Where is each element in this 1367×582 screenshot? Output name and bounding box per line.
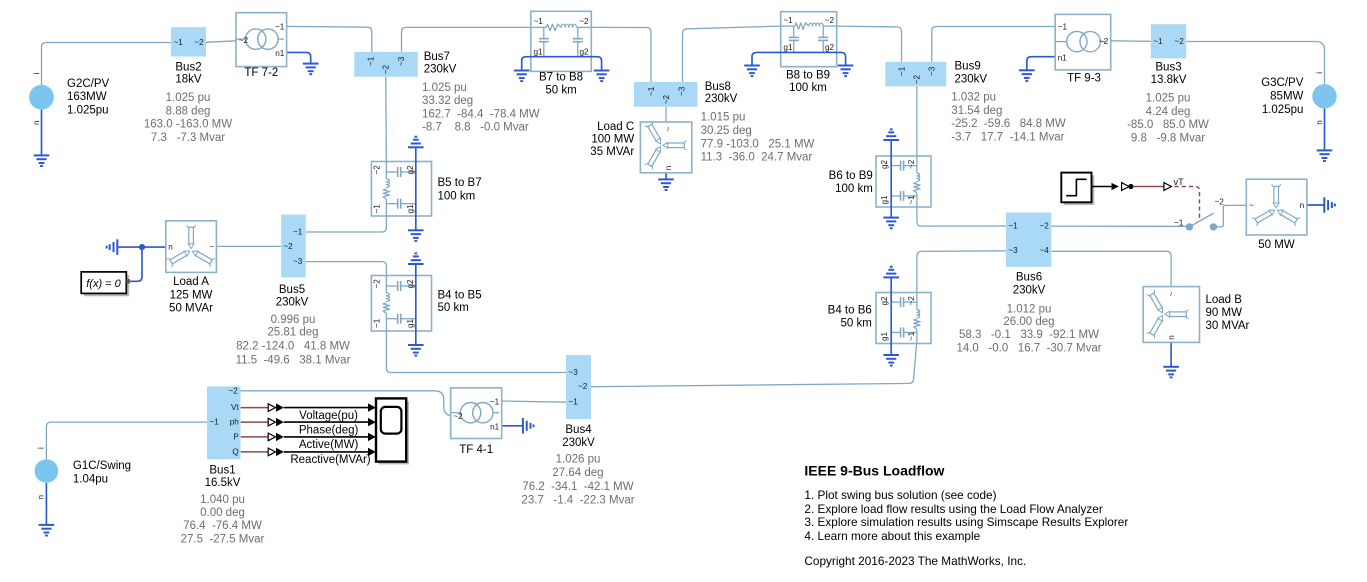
wire Load B n to ground: [1170, 342, 1172, 366]
svg-text:~2: ~2: [578, 382, 588, 391]
wire Bus9 port ~2 to line B6 to B9 port ~2: [916, 86, 918, 156]
svg-text:Voltage(pu): Voltage(pu): [299, 410, 358, 422]
list item 1: [804, 488, 996, 502]
label Load C: [590, 121, 634, 158]
flipped ground above line B4 to B5: [408, 253, 424, 264]
ground right of line B8 to B9: [838, 66, 854, 77]
svg-text:230kV: 230kV: [955, 74, 988, 86]
wire TF 7-2 port ~1 to Bus7 port ~1: [287, 26, 372, 52]
transmission line B5 to B7: [371, 162, 431, 217]
transformer TF 7-2: [236, 13, 287, 67]
svg-text:~2: ~2: [1039, 222, 1049, 231]
bus Bus3: [1151, 24, 1186, 58]
signal wires to Scope: [268, 403, 376, 456]
svg-text:g1: g1: [880, 195, 889, 205]
svg-text:~2: ~2: [239, 36, 249, 45]
wire Bus8 port ~3 to line B8 to B9 port ~1: [683, 26, 781, 82]
svg-text:B8 to B9: B8 to B9: [786, 69, 830, 81]
svg-text:Q: Q: [232, 447, 238, 456]
svg-text:50 km: 50 km: [545, 85, 576, 97]
svg-text:~1: ~1: [373, 318, 382, 328]
svg-text:~1: ~1: [1058, 22, 1068, 31]
svg-text:TF 7-2: TF 7-2: [244, 67, 278, 79]
svg-text:11.3 -36.0 24.7 Mvar: 11.3 -36.0 24.7 Mvar: [701, 152, 813, 164]
wire line B4 to B6 port ~2 to Bus6 port ~3: [917, 251, 1006, 293]
values Bus3: [1127, 93, 1209, 145]
wire switch port ~2 to load 50 MW: [1216, 205, 1246, 227]
transformer TF 4-1: [451, 388, 502, 439]
bus Bus9: [885, 62, 946, 87]
svg-text:~1: ~1: [210, 418, 220, 427]
svg-text:1.012 pu: 1.012 pu: [1007, 304, 1052, 316]
svg-text:n: n: [1315, 120, 1324, 125]
values Bus5: [236, 314, 351, 366]
wire TF 9-3 n1 to ground: [1027, 57, 1055, 71]
svg-text:Bus8: Bus8: [705, 81, 731, 93]
svg-text:1.025pu: 1.025pu: [67, 105, 109, 117]
label G1C/Swing: [73, 460, 131, 486]
svg-text:Bus7: Bus7: [424, 51, 450, 63]
generator G3C/PV: [1312, 72, 1336, 125]
wire G2C/PV n to ground: [41, 110, 43, 156]
label Voltage(pu): [299, 410, 358, 422]
svg-text:1.025pu: 1.025pu: [1262, 104, 1304, 116]
physical signal wire to vT: [1133, 186, 1164, 188]
bus Bus5: [281, 215, 306, 278]
svg-text:~1: ~1: [373, 204, 382, 214]
label Reactive(MVAr): [290, 454, 370, 466]
label B6 to B9: [829, 170, 873, 195]
wire Bus3 port ~2 to G3C/PV: [1186, 42, 1324, 85]
svg-text:~2: ~2: [373, 279, 382, 289]
svg-text:i: i: [37, 447, 46, 449]
svg-text:11.5 -49.6 38.1 Mvar: 11.5 -49.6 38.1 Mvar: [236, 354, 351, 366]
svg-text:163.0 -163.0 MW: 163.0 -163.0 MW: [144, 119, 232, 131]
svg-text:~2: ~2: [1099, 37, 1109, 46]
svg-text:33.32 deg: 33.32 deg: [422, 95, 473, 107]
svg-text:~1: ~1: [275, 22, 285, 31]
values Bus2: [144, 92, 232, 144]
svg-text:50 km: 50 km: [840, 318, 871, 330]
svg-text:76.2 -34.1 -42.1 MW: 76.2 -34.1 -42.1 MW: [522, 481, 633, 493]
junction node at Load A ground net: [140, 245, 145, 250]
svg-text:B4 to B5: B4 to B5: [438, 290, 482, 302]
transmission line B6 to B9: [876, 156, 931, 207]
wire g net line B4 to B6: [890, 277, 892, 355]
svg-text:-3.7 17.7 -14.1 Mvar: -3.7 17.7 -14.1 Mvar: [951, 132, 1064, 144]
wire load 50 MW n to ground: [1307, 204, 1324, 206]
svg-text:13.8kV: 13.8kV: [1151, 74, 1187, 86]
label B4 to B6: [828, 304, 872, 329]
svg-text:~1: ~1: [367, 56, 376, 66]
label Bus5: [276, 284, 309, 308]
svg-text:~2: ~2: [283, 242, 293, 251]
values Bus6: [956, 304, 1101, 355]
svg-text:1. Plot swing bus solution (se: 1. Plot swing bus solution (see code): [804, 488, 996, 502]
svg-text:~3: ~3: [928, 66, 937, 76]
svg-text:25.81 deg: 25.81 deg: [267, 327, 318, 339]
svg-text:9.8 -9.8 Mvar: 9.8 -9.8 Mvar: [1131, 132, 1205, 144]
label vT: [1174, 177, 1185, 187]
svg-text:n1: n1: [275, 49, 285, 58]
svg-text:IEEE 9-Bus Loadflow: IEEE 9-Bus Loadflow: [804, 462, 944, 478]
svg-text:~2: ~2: [194, 38, 204, 47]
ground below line B4 to B5: [408, 345, 424, 356]
wire TF 4-1 n1 to ground: [502, 425, 523, 427]
wire Bus8 port ~2 to Load C: [665, 107, 667, 122]
svg-text:ph: ph: [230, 418, 240, 427]
svg-text:100 km: 100 km: [835, 183, 873, 195]
svg-text:27.64 deg: 27.64 deg: [552, 467, 603, 479]
label G3C/PV: [1261, 77, 1304, 116]
svg-text:230kV: 230kV: [276, 296, 309, 308]
svg-text:~2: ~2: [907, 296, 916, 306]
svg-text:B7 to B8: B7 to B8: [539, 71, 583, 83]
svg-text:27.5 -27.5 Mvar: 27.5 -27.5 Mvar: [181, 533, 265, 545]
label B8 to B9: [786, 69, 830, 94]
svg-text:g1: g1: [534, 48, 544, 57]
ground at TF 7-2: [303, 64, 319, 75]
transmission line B7 to B8: [531, 11, 592, 71]
svg-text:n: n: [664, 165, 673, 170]
ground at TF 9-3: [1019, 70, 1035, 81]
svg-text:Bus1: Bus1: [209, 464, 235, 476]
wire Bus1 port ~2 to TF 4-1 port ~2: [241, 391, 453, 416]
svg-text:g1: g1: [880, 331, 889, 341]
svg-text:76.4 -76.4 MW: 76.4 -76.4 MW: [183, 520, 262, 532]
svg-text:TF 9-3: TF 9-3: [1067, 72, 1101, 84]
svg-text:Copyright 2016-2023 The MathWo: Copyright 2016-2023 The MathWorks, Inc.: [804, 554, 1026, 568]
generator G2C/PV: [29, 73, 54, 126]
bus Bus2: [171, 27, 206, 56]
svg-text:~3: ~3: [569, 368, 579, 377]
svg-text:~2: ~2: [1215, 197, 1225, 206]
svg-text:~1: ~1: [1174, 219, 1184, 228]
values Bus8: [701, 112, 815, 164]
wire line B8 to B9 g1 g2 to grounds: [752, 52, 846, 65]
bus Bus8: [634, 82, 698, 107]
svg-text:B6 to B9: B6 to B9: [829, 170, 873, 182]
port label ~1 of switch: [1174, 219, 1184, 228]
converter triangle with node: [1122, 183, 1133, 191]
svg-text:g2: g2: [406, 279, 415, 289]
svg-text:Phase(deg): Phase(deg): [299, 425, 359, 437]
svg-text:Reactive(MVAr): Reactive(MVAr): [290, 454, 370, 466]
wire line B7 to B8 g1 g2 to grounds: [522, 57, 602, 71]
scope block: [376, 398, 409, 464]
svg-text:-8.7 8.8 -0.0 Mvar: -8.7 8.8 -0.0 Mvar: [422, 122, 529, 134]
wire Bus2 to TF 7-2: [206, 41, 236, 43]
svg-text:-85.0 85.0 MW: -85.0 85.0 MW: [1127, 119, 1209, 131]
flipped ground above line B6 to B9: [883, 129, 899, 140]
svg-text:~1: ~1: [907, 195, 916, 205]
svg-text:~2: ~2: [228, 387, 238, 396]
svg-text:0.00 deg: 0.00 deg: [200, 507, 245, 519]
wire line B4 to B5 port ~1 to Bus4 port ~3: [386, 331, 566, 373]
svg-text:~1: ~1: [647, 86, 656, 96]
svg-text:1.025 pu: 1.025 pu: [1146, 93, 1191, 105]
svg-text:Load A: Load A: [173, 276, 209, 288]
svg-text:~1: ~1: [174, 38, 184, 47]
svg-text:~2: ~2: [907, 159, 916, 169]
svg-text:TF 4-1: TF 4-1: [459, 444, 493, 456]
port label ~2 of switch: [1215, 197, 1225, 206]
svg-text:1.025 pu: 1.025 pu: [422, 82, 467, 94]
svg-text:Bus9: Bus9: [955, 61, 981, 73]
sideways ground at Load A: [107, 239, 118, 255]
svg-text:~: ~: [1167, 292, 1176, 297]
svg-text:82.2 -124.0 41.8 MW: 82.2 -124.0 41.8 MW: [236, 341, 350, 353]
svg-text:P: P: [233, 432, 239, 441]
label Phase(deg): [299, 425, 359, 437]
bus Bus1: [207, 386, 241, 459]
ground right of line B7 to B8: [594, 71, 610, 82]
svg-text:G2C/PV: G2C/PV: [67, 78, 110, 90]
svg-text:30.25 deg: 30.25 deg: [701, 125, 752, 137]
label Bus4: [562, 424, 595, 449]
wire Bus4 port ~2 to line B4 to B6 port ~1: [591, 344, 917, 387]
ground below line B4 to B6: [883, 355, 899, 366]
load Load B: [1143, 287, 1199, 343]
svg-text:Load B: Load B: [1206, 294, 1243, 306]
svg-text:~1: ~1: [1008, 222, 1018, 231]
svg-text:162.7 -84.4 -78.4 MW: 162.7 -84.4 -78.4 MW: [422, 108, 540, 120]
svg-text:31.54 deg: 31.54 deg: [951, 105, 1002, 117]
wire G3C/PV n to ground: [1324, 109, 1326, 151]
svg-text:50 MVAr: 50 MVAr: [169, 303, 213, 315]
load Load A: [166, 221, 217, 273]
label Bus7: [424, 51, 457, 75]
wire g net line B5 to B7: [415, 147, 417, 230]
svg-text:230kV: 230kV: [562, 437, 595, 449]
svg-text:Bus3: Bus3: [1155, 62, 1181, 74]
sideways ground at TF 4-1: [523, 418, 534, 434]
svg-text:23.7 -1.4 -22.3 Mvar: 23.7 -1.4 -22.3 Mvar: [521, 494, 634, 506]
svg-text:90 MW: 90 MW: [1206, 307, 1243, 319]
svg-text:1.04pu: 1.04pu: [73, 474, 108, 486]
wire Bus6 port ~4 to Load B: [1051, 251, 1171, 286]
svg-text:Active(MW): Active(MW): [299, 439, 359, 451]
generator G1C/Swing: [35, 447, 59, 500]
svg-text:-25.2 -59.6 84.8 MW: -25.2 -59.6 84.8 MW: [951, 118, 1066, 130]
svg-text:2. Explore load flow results u: 2. Explore load flow results using the L…: [804, 502, 1102, 516]
svg-text:~1: ~1: [897, 66, 906, 76]
title IEEE 9-Bus Loadflow: [804, 462, 944, 478]
svg-text:g1: g1: [406, 204, 415, 214]
svg-text:g2: g2: [825, 43, 835, 52]
svg-text:g2: g2: [579, 48, 589, 57]
wire Bus6 port ~2 to switch port ~1: [1051, 225, 1186, 227]
svg-text:f(x) = 0: f(x) = 0: [86, 278, 121, 290]
svg-text:i: i: [1315, 72, 1324, 74]
label Load B: [1206, 294, 1250, 332]
svg-text:vT: vT: [1174, 177, 1185, 187]
svg-text:1.015 pu: 1.015 pu: [701, 112, 746, 124]
svg-text:1.025 pu: 1.025 pu: [166, 92, 211, 104]
svg-text:Bus4: Bus4: [565, 424, 592, 436]
svg-text:~3: ~3: [397, 56, 406, 66]
wire G2C/PV to Bus2: [42, 43, 172, 86]
wire g net line B6 to B9: [890, 140, 892, 218]
values Bus1: [181, 494, 265, 545]
svg-text:3. Explore simulation results: 3. Explore simulation results using Sims…: [804, 515, 1128, 529]
ground below G2C/PV: [34, 155, 50, 166]
svg-text:1.040 pu: 1.040 pu: [200, 494, 245, 506]
svg-text:~4: ~4: [1039, 246, 1049, 255]
wire line B8 to B9 port ~2 to Bus9 port ~1: [837, 26, 902, 62]
svg-text:30 MVAr: 30 MVAr: [1206, 320, 1250, 332]
svg-text:~3: ~3: [293, 257, 303, 266]
label Bus1: [205, 464, 241, 488]
label TF 7-2: [244, 67, 278, 79]
wire Bus5 port ~3 to line B4 to B5 port ~2: [306, 262, 387, 276]
list item 4: [804, 529, 980, 543]
wire Bus7 port ~3 to line B7 to B8 port ~1: [402, 27, 532, 52]
svg-text:230kV: 230kV: [1013, 284, 1046, 296]
svg-text:n1: n1: [1058, 54, 1068, 63]
label Load A: [169, 276, 213, 315]
dashed control wire vT to switch: [1175, 187, 1200, 220]
switch contact node 1: [1186, 224, 1192, 230]
svg-text:14.0 -0.0 16.7 -30.7 Mvar: 14.0 -0.0 16.7 -30.7 Mvar: [956, 342, 1101, 354]
svg-text:~2: ~2: [579, 17, 589, 26]
svg-text:16.5kV: 16.5kV: [205, 477, 241, 489]
ports Vt ph P Q of Bus1: [230, 403, 240, 456]
wire junction to Solver Configuration: [130, 247, 142, 281]
converter triangle vT: [1164, 183, 1172, 191]
label B7 to B8: [539, 71, 583, 96]
ground below Load C: [658, 179, 674, 190]
label B5 to B7: [438, 177, 482, 202]
solver configuration block f(x)=0: [81, 272, 130, 296]
svg-text:26.00 deg: 26.00 deg: [1003, 316, 1054, 328]
wire line B7 to B8 port ~2 to Bus8 port ~1: [591, 27, 651, 82]
wire TF 7-2 n1 to ground: [287, 52, 311, 63]
ground below G1C/Swing: [39, 525, 55, 536]
svg-text:Bus6: Bus6: [1016, 272, 1042, 284]
wire Bus9 port ~3 to TF 9-3 port ~1: [932, 27, 1055, 62]
bus Bus4: [566, 355, 591, 419]
wire Load A to Bus5 port ~2: [216, 245, 281, 247]
flipped ground above line B5 to B7: [408, 137, 424, 148]
transmission line B8 to B9: [781, 12, 837, 67]
svg-text:~: ~: [209, 242, 214, 251]
svg-text:g2: g2: [880, 159, 889, 169]
svg-text:230kV: 230kV: [705, 93, 738, 105]
label Bus9: [955, 61, 988, 86]
svg-text:100 km: 100 km: [789, 82, 827, 94]
svg-text:~: ~: [664, 127, 673, 132]
label Active(MW): [299, 439, 359, 451]
svg-text:~2: ~2: [662, 95, 671, 105]
svg-text:g1: g1: [783, 43, 793, 52]
svg-text:100 km: 100 km: [438, 190, 476, 202]
transformer TF 9-3: [1055, 14, 1111, 70]
svg-text:~3: ~3: [677, 86, 686, 96]
list item 3: [804, 515, 1128, 529]
values Bus4: [521, 454, 634, 507]
svg-text:230kV: 230kV: [424, 63, 457, 75]
label G2C/PV: [67, 78, 110, 116]
svg-text:Load C: Load C: [597, 121, 634, 133]
label Bus3: [1151, 62, 1187, 86]
svg-text:~: ~: [1249, 201, 1254, 210]
label Bus8: [705, 81, 738, 105]
svg-text:n1: n1: [490, 422, 500, 431]
flipped ground above line B4 to B6: [883, 267, 899, 278]
label Bus6: [1013, 272, 1046, 297]
svg-text:~2: ~2: [825, 16, 835, 25]
svg-text:4. Learn more about this examp: 4. Learn more about this example: [804, 529, 980, 543]
svg-text:g2: g2: [406, 165, 415, 175]
bus Bus6: [1006, 213, 1051, 267]
svg-text:g2: g2: [880, 296, 889, 306]
signal wire step to converter: [1092, 183, 1119, 190]
svg-text:n: n: [1300, 201, 1305, 210]
label Bus2: [175, 61, 202, 85]
svg-text:35 MVAr: 35 MVAr: [590, 146, 634, 158]
wire ground to Load A n: [117, 246, 166, 248]
label B4 to B5: [438, 290, 482, 315]
bus Bus7: [354, 52, 418, 77]
ground below line B6 to B9: [883, 218, 899, 229]
ground below Load B: [1163, 367, 1179, 378]
svg-text:~1: ~1: [783, 16, 793, 25]
svg-text:Bus5: Bus5: [279, 284, 305, 296]
svg-text:G1C/Swing: G1C/Swing: [73, 460, 131, 472]
load 50 MW: [1246, 179, 1307, 235]
load Load C: [640, 121, 691, 173]
svg-text:n: n: [32, 120, 41, 125]
svg-text:100 MW: 100 MW: [591, 133, 634, 145]
label TF 4-1: [459, 444, 493, 456]
svg-text:50 MW: 50 MW: [1258, 239, 1295, 251]
svg-text:i: i: [32, 73, 41, 75]
svg-text:Bus2: Bus2: [175, 61, 201, 73]
svg-text:B4 to B6: B4 to B6: [828, 304, 872, 316]
values Bus7: [422, 82, 540, 134]
svg-text:18kV: 18kV: [175, 74, 202, 86]
svg-text:~3: ~3: [1008, 246, 1018, 255]
svg-text:~1: ~1: [569, 398, 579, 407]
transmission line B4 to B5: [371, 276, 431, 332]
svg-text:~2: ~2: [382, 65, 391, 75]
svg-text:8.88 deg: 8.88 deg: [166, 105, 211, 117]
svg-text:4.24 deg: 4.24 deg: [1146, 106, 1191, 118]
svg-text:Vt: Vt: [231, 403, 239, 412]
svg-text:~2: ~2: [373, 165, 382, 175]
transmission line B4 to B6: [876, 293, 931, 344]
svg-text:50 km: 50 km: [438, 302, 469, 314]
svg-text:163MW: 163MW: [67, 91, 107, 103]
ground below line B5 to B7: [408, 230, 424, 241]
wire line B5 to B7 port ~1 to Bus5 port ~1: [306, 216, 387, 232]
sideways ground right of load 50 MW: [1324, 197, 1335, 213]
svg-text:77.9 -103.0 25.1 MW: 77.9 -103.0 25.1 MW: [701, 138, 815, 150]
svg-text:~2: ~2: [913, 75, 922, 85]
svg-text:B5 to B7: B5 to B7: [438, 177, 482, 189]
wire TF 4-1 port ~1 to Bus4 port ~1: [502, 401, 566, 402]
svg-text:~2: ~2: [453, 412, 463, 421]
wire Bus7 port ~2 to line B5 to B7 port ~2: [385, 77, 388, 162]
switch contact node 2: [1210, 224, 1216, 230]
step source block: [1061, 173, 1094, 206]
wire TF 9-3 port ~2 to Bus3 port ~1: [1111, 40, 1151, 43]
wire Load C n to ground: [665, 173, 667, 180]
wire g net line B4 to B5: [415, 264, 417, 345]
list item 2: [804, 502, 1102, 516]
ground left of line B7 to B8: [514, 71, 530, 82]
